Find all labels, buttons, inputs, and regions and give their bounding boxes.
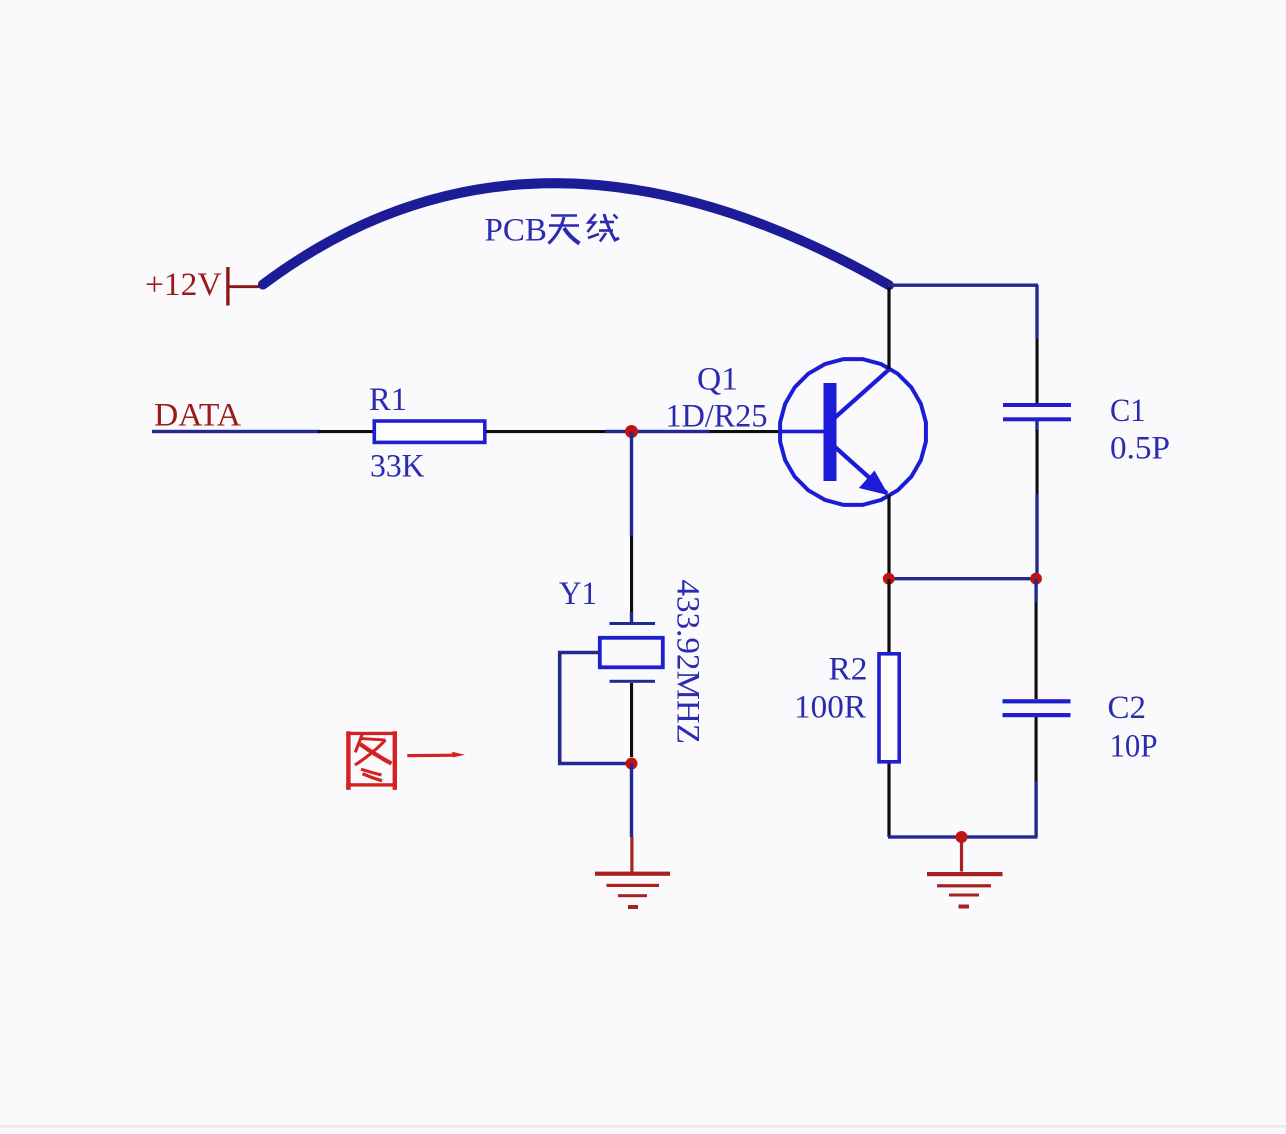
wire crystal top stub (navy) (630, 612, 633, 622)
transistor Q1 base bar (824, 383, 837, 481)
wire R1 to node A (navy) (605, 430, 710, 433)
ground GND2 (927, 872, 1003, 909)
wire collector up (black) (887, 285, 890, 369)
ground GND1 (595, 872, 670, 909)
wire R1 left pin (black) (318, 430, 375, 433)
antenna arc (PCB antenna) (263, 183, 889, 285)
svg-text:10P: 10P (1110, 729, 1158, 765)
wire R2 bottom pin (black) (887, 764, 890, 838)
figure label CJK yi (dash) (407, 754, 456, 758)
wire to ground GND1 (red) (630, 837, 633, 872)
wire node B down (navy) (630, 764, 633, 838)
wire crystal top pin (black) (630, 536, 633, 612)
wire to ground GND2 (red) (960, 837, 963, 872)
wire C1 top stub (navy) (1035, 285, 1038, 339)
bottom faint page edge line (0, 1125, 1286, 1128)
capacitor C1 bottom plate (1003, 417, 1071, 421)
wire DATA to R1 (navy) (152, 430, 320, 433)
wire bottom rail (navy) (888, 835, 1038, 838)
wire top rail (navy) (888, 284, 1038, 287)
wire C2 top pin (black) (1035, 602, 1038, 699)
transistor Q1 emitter arrowhead (859, 471, 889, 496)
node B junction dot (626, 758, 638, 770)
crystal Y1 body (600, 638, 663, 668)
node E junction dot (956, 831, 968, 843)
svg-text:R1: R1 (369, 382, 407, 418)
transistor Q1 collector stroke (835, 370, 889, 418)
wire C2 top stub (navy) (1034, 579, 1037, 602)
svg-text:+12V: +12V (145, 267, 222, 303)
wire middle junction row (navy) (888, 577, 1037, 580)
svg-text:C1: C1 (1110, 393, 1146, 429)
power +12V bar (226, 267, 229, 306)
wire C1 bottom pin (black) (1036, 430, 1039, 494)
wire crystal bottom pin (black) (630, 683, 633, 757)
svg-text:DATA: DATA (154, 398, 241, 434)
svg-text:33K: 33K (370, 449, 425, 485)
svg-text:433.92MHZ: 433.92MHZ (670, 580, 706, 745)
wire node A down (navy) (630, 432, 633, 537)
capacitor C2 top plate (1003, 699, 1071, 703)
wire node A to Q1 base (black) (710, 430, 780, 433)
antenna label CJK xian (588, 214, 620, 242)
wire C1 to node row (navy) (1035, 494, 1038, 579)
wire emitter down (black) (887, 495, 890, 579)
svg-text:0.5P: 0.5P (1110, 431, 1170, 467)
power +12V stub wire (229, 285, 261, 288)
capacitor C1 top plate (1003, 403, 1071, 407)
transistor Q1 base wire (779, 430, 824, 434)
wire R2 top pin (black) (887, 579, 890, 652)
wire R1 right pin (black) (486, 430, 605, 433)
resistor R2 (879, 654, 899, 762)
svg-text:PCB: PCB (485, 213, 547, 249)
figure label CJK tu (boxed) (346, 731, 397, 790)
wire C2 bottom pin (black) (1035, 717, 1038, 781)
svg-text:R2: R2 (829, 652, 868, 688)
node D junction dot (1030, 573, 1042, 585)
wire C2 to bottom rail (navy) (1034, 781, 1037, 837)
capacitor C2 bottom plate (1003, 713, 1071, 717)
node A junction dot (625, 425, 638, 438)
svg-text:100R: 100R (794, 690, 866, 726)
wire crystal left loop (navy) (560, 653, 628, 764)
node C junction dot (883, 573, 895, 585)
wire C1 bottom stub (navy) (1035, 421, 1038, 431)
antenna label CJK tian (549, 216, 580, 244)
resistor R1 (374, 421, 485, 442)
svg-text:1D/R25: 1D/R25 (666, 399, 768, 435)
transistor Q1 emitter stroke (835, 447, 887, 494)
svg-text:Q1: Q1 (697, 362, 738, 398)
crystal Y1 bottom electrode (610, 680, 656, 683)
svg-text:C2: C2 (1108, 690, 1147, 726)
svg-text:Y1: Y1 (559, 576, 597, 612)
wire C1 top pin (black) (1036, 339, 1039, 403)
crystal Y1 top electrode (610, 622, 656, 625)
transistor Q1 circle (780, 359, 926, 505)
